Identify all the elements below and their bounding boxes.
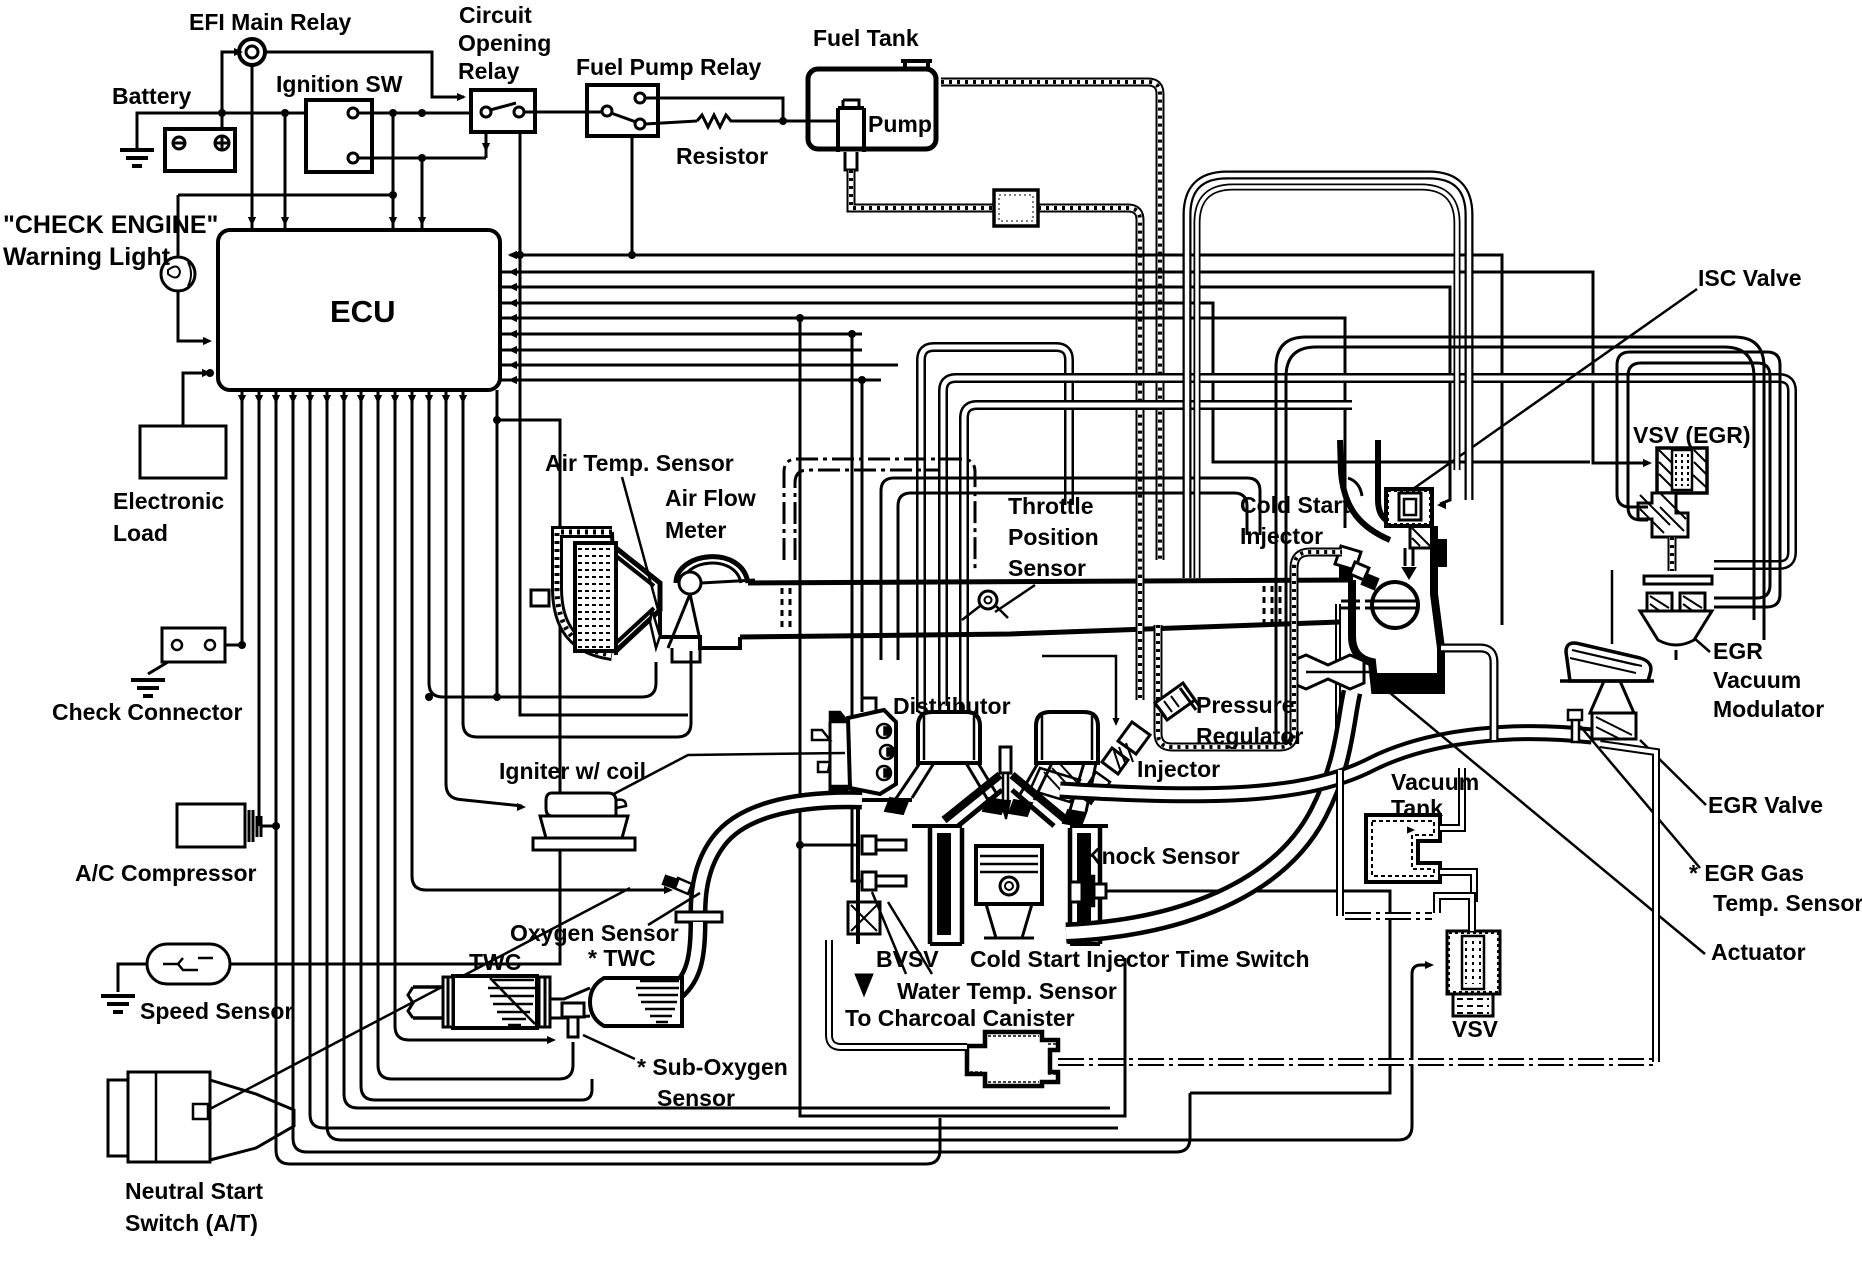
intake flange hatch	[1030, 768, 1080, 802]
circuit opening relay	[471, 90, 535, 132]
AFM body bottom	[660, 612, 740, 648]
svg-text:Sensor: Sensor	[1008, 555, 1086, 581]
wire speed sensor ground	[118, 964, 147, 992]
svg-text:Vacuum: Vacuum	[1713, 667, 1801, 693]
big intake pipe engine to surge tank (thick)	[1066, 692, 1352, 933]
wire electronic load to ECU	[183, 373, 206, 426]
svg-text:Vacuum: Vacuum	[1391, 769, 1479, 795]
svg-text:Battery: Battery	[112, 83, 191, 109]
fuel return loop (hatched)	[1140, 575, 1294, 747]
black arrow below BVSV	[855, 974, 873, 996]
TWC 1	[453, 976, 537, 1028]
ISC valve leader	[1413, 289, 1697, 489]
throttle valve	[1372, 582, 1418, 628]
svg-text:Injector: Injector	[1240, 523, 1323, 549]
svg-text:* TWC: * TWC	[588, 945, 656, 971]
injector (fuel)	[1118, 722, 1150, 754]
EGR vacuum modulator leader	[1694, 638, 1710, 652]
hose loop 6	[1286, 347, 1754, 745]
neutral start switch (A/T)	[128, 1072, 210, 1162]
hose vacuum tank right	[1440, 768, 1462, 828]
svg-text:A/C Compressor: A/C Compressor	[75, 860, 257, 886]
svg-text:* EGR Gas: * EGR Gas	[1689, 860, 1804, 886]
throttle position sensor	[979, 591, 997, 609]
wire ECU pin x=446	[446, 390, 522, 806]
vacuum hose plenum to surge tank (double)	[964, 405, 1352, 712]
svg-text:Fuel Pump Relay: Fuel Pump Relay	[576, 54, 762, 80]
exhaust inlet pipe	[413, 987, 443, 1018]
wire ECU bus y=303	[500, 303, 1590, 462]
svg-text:Air Temp. Sensor: Air Temp. Sensor	[545, 450, 734, 476]
cold start injector fuel hose (hatched)	[1294, 552, 1342, 720]
wire ECU pin x=463	[463, 390, 691, 737]
wire FPR junction to right side	[632, 255, 1502, 625]
AFM measuring chamber dome	[676, 557, 748, 583]
battery	[165, 129, 235, 171]
wire ECU bus y=272	[500, 272, 1645, 463]
svg-text:Pressure: Pressure	[1196, 692, 1294, 718]
ground (battery)	[120, 150, 154, 166]
wire EFI relay to ECU	[251, 65, 254, 228]
intake pipe to throttle body	[748, 580, 1352, 583]
hose up to EGR temp area	[1600, 744, 1656, 1062]
svg-text:EGR: EGR	[1713, 638, 1763, 664]
electronic load	[140, 426, 226, 478]
pressure regulator	[1155, 683, 1195, 720]
svg-text:Electronic: Electronic	[113, 488, 224, 514]
throttle body / surge tank walls	[1352, 526, 1441, 690]
svg-text:BVSV: BVSV	[876, 946, 939, 972]
svg-text:Speed Sensor: Speed Sensor	[140, 998, 293, 1024]
svg-text:Cold Start Injector Time Switc: Cold Start Injector Time Switch	[970, 946, 1310, 972]
svg-text:Load: Load	[113, 520, 168, 546]
fuel line from pump (hatched)	[851, 170, 994, 208]
wire ECU bus y=365	[500, 364, 898, 367]
svg-text:Throttle: Throttle	[1008, 493, 1094, 519]
EGR valve leader	[1640, 740, 1706, 805]
wire ECU bus y=334	[500, 333, 862, 336]
AFM vane	[668, 594, 700, 648]
wire to distributor	[861, 380, 864, 712]
ECU	[218, 230, 500, 390]
svg-text:Modulator: Modulator	[1713, 696, 1824, 722]
svg-text:Oxygen Sensor: Oxygen Sensor	[510, 920, 679, 946]
distributor	[848, 710, 896, 794]
EFI main relay	[239, 39, 265, 65]
wire A/C to harness	[261, 825, 278, 828]
wire loop L2	[898, 493, 1247, 660]
ISC passage	[1410, 526, 1432, 548]
exhaust downpipe	[698, 800, 862, 912]
BVSV valve	[848, 902, 880, 934]
wire ECU pin x=327	[327, 390, 1430, 1140]
hot air hose (dash-dot)	[784, 459, 975, 570]
igniter w/ coil	[546, 793, 616, 816]
svg-text:To Charcoal Canister: To Charcoal Canister	[845, 1005, 1075, 1031]
exhaust flange	[676, 912, 722, 922]
AFM vane pivot	[679, 572, 701, 594]
wire check connector to ECU harness	[225, 644, 242, 647]
wire ECU pin x=395	[395, 390, 553, 1040]
wire COR to air flow meter	[520, 132, 688, 715]
spark plug	[1000, 747, 1011, 773]
intake runners	[895, 763, 998, 800]
actuator	[1292, 655, 1364, 689]
svg-text:Resistor: Resistor	[676, 143, 768, 169]
svg-text:Opening: Opening	[458, 30, 551, 56]
intake horn channel	[1340, 440, 1390, 540]
svg-text:Water Temp. Sensor: Water Temp. Sensor	[897, 978, 1117, 1004]
wire to ECU	[421, 158, 424, 228]
surge tank to EGR delivery hose	[1441, 648, 1494, 740]
EGR gas temp sensor	[1568, 710, 1582, 742]
wire ECU pin x=242	[241, 390, 244, 645]
pump	[838, 108, 864, 152]
wire ECU pin x=344	[344, 390, 1110, 1108]
injector wire	[1042, 656, 1116, 722]
wire FPR to ECU	[510, 136, 632, 255]
hose VSV(EGR) elbow to modulator	[1668, 537, 1677, 571]
svg-text:Neutral Start: Neutral Start	[125, 1178, 263, 1204]
svg-text:Tank: Tank	[1391, 795, 1443, 821]
local hose loop around VSV(EGR) outer	[1617, 352, 1780, 607]
air filter element (hatched)	[575, 543, 616, 651]
wire neutral start switch (diagonal)	[208, 888, 630, 1110]
air temp sensor leader	[622, 477, 660, 617]
wire ECU pin x=276	[276, 390, 940, 1164]
vacuum hose plenum to EGR modulator (long double)	[943, 378, 1792, 706]
VSV(EGR) elbow	[1638, 493, 1688, 537]
canister loop wire	[800, 845, 1125, 1116]
air temp sensor	[650, 610, 660, 648]
actuator leader (long diagonal)	[1372, 678, 1705, 954]
VSV top pipe	[1437, 896, 1472, 931]
svg-text:ECU: ECU	[330, 294, 395, 329]
EGR valve	[1566, 643, 1651, 681]
svg-text:Regulator: Regulator	[1196, 723, 1303, 749]
wire ECU bus y=350	[500, 349, 862, 352]
svg-text:Warning Light: Warning Light	[3, 243, 171, 271]
knock sensor wire	[1106, 891, 1390, 1093]
svg-text:* Sub-Oxygen: * Sub-Oxygen	[637, 1054, 788, 1080]
ground (speed sensor)	[101, 996, 135, 1012]
wire ECU bus y=380	[500, 379, 881, 382]
piston	[976, 846, 1042, 904]
EGR pipe fuel-rail level (thick)	[1060, 733, 1592, 795]
fuel pump relay	[587, 85, 658, 136]
AFM funnel	[616, 548, 660, 651]
wire ECU pin x=259	[258, 390, 261, 826]
knock sensor	[1070, 882, 1082, 902]
water temp sensor bolts	[862, 836, 906, 854]
wire to ECU	[392, 113, 395, 228]
charcoal canister	[967, 1032, 1058, 1086]
wire to ECU	[284, 113, 287, 228]
wire ignition SW lower contact	[358, 157, 486, 160]
ISC valve	[1386, 489, 1432, 526]
hose loop 1	[1187, 175, 1469, 578]
ignition SW	[306, 100, 372, 172]
actuator stem	[1336, 604, 1340, 790]
check connector	[162, 628, 225, 662]
svg-text:ISC Valve: ISC Valve	[1698, 265, 1802, 291]
wire EFI relay to circuit opening relay	[265, 52, 464, 97]
wire ECU corner to AFM	[496, 390, 499, 697]
VSV (bottom)	[1447, 931, 1500, 994]
wire ECU pin x=361	[361, 390, 592, 1100]
wire ECU pin x=429	[429, 390, 656, 697]
wire to water temp sensor	[796, 314, 804, 322]
cold start injector	[1335, 546, 1361, 570]
EGR gas temp sensor leader	[1580, 726, 1700, 868]
wire battery+ to EFI relay	[222, 52, 238, 129]
wire COR to fuel pump relay	[524, 111, 602, 114]
oxygen sensor	[674, 878, 692, 894]
oxygen sensor leader	[648, 893, 700, 925]
A/C compressor	[177, 804, 245, 847]
cylinder head V	[944, 775, 1066, 820]
local hose loop around VSV(EGR) inner	[1628, 363, 1770, 598]
svg-text:VSV: VSV	[1452, 1016, 1499, 1042]
hose loop 2	[1197, 187, 1457, 578]
wire lamp to ECU	[178, 291, 208, 341]
svg-text:Pump: Pump	[868, 111, 932, 137]
svg-text:Relay: Relay	[458, 58, 520, 84]
fuel filter	[994, 190, 1038, 226]
svg-text:Injector: Injector	[1137, 756, 1220, 782]
vacuum hose plenum to center (double)	[921, 347, 1069, 712]
svg-text:EFI Main Relay: EFI Main Relay	[189, 9, 352, 35]
wire to BVSV	[852, 334, 862, 881]
AFM sensor stubs	[690, 651, 693, 715]
BVSV / water temp leaders	[872, 892, 906, 974]
vacuum tank	[1366, 815, 1440, 882]
wire COR lower stub	[485, 132, 488, 158]
ground (check connector)	[131, 680, 165, 696]
svg-text:Igniter w/ coil: Igniter w/ coil	[499, 758, 646, 784]
svg-text:"CHECK ENGINE": "CHECK ENGINE"	[3, 211, 218, 239]
wire loop to cold start hose region L1	[881, 478, 1260, 660]
svg-text:EGR Valve: EGR Valve	[1708, 792, 1823, 818]
TPS leader	[995, 585, 1035, 612]
pipe between TWCs	[550, 988, 590, 1018]
svg-text:Meter: Meter	[665, 517, 726, 543]
VSV (EGR)	[1657, 448, 1707, 493]
sub-oxygen sensor	[562, 1003, 584, 1017]
resistor	[697, 115, 734, 127]
EGR valve stem	[1611, 570, 1614, 644]
wire FPR top contact to fuel tank	[645, 98, 783, 120]
dashdot hose to VSV	[1345, 912, 1432, 920]
canister feed hose from BVSV	[829, 940, 967, 1047]
sub-oxygen leader	[583, 1035, 635, 1059]
wire FPR via resistor to pump	[645, 121, 697, 124]
wire ECU pin x=412	[412, 390, 668, 890]
fuel tank	[808, 69, 936, 149]
downpipe to TWC2	[672, 922, 698, 996]
wire ignition SW upper contact	[358, 112, 471, 115]
svg-text:Sensor: Sensor	[657, 1085, 735, 1111]
svg-text:Circuit: Circuit	[459, 2, 532, 28]
svg-text:Air Flow: Air Flow	[665, 485, 756, 511]
check engine warning light	[178, 194, 393, 197]
throttle shaft dashed	[1341, 601, 1372, 608]
wire ECU bus y=287	[500, 287, 1450, 504]
wire speed sensor to ECU	[230, 420, 560, 964]
svg-text:Switch (A/T): Switch (A/T)	[125, 1210, 258, 1236]
wire ECU pin x=378	[378, 390, 573, 1079]
intake plenum chambers	[918, 712, 980, 763]
wire igniter to distributor	[608, 753, 845, 797]
fuel return line (hatched)	[941, 82, 1160, 560]
wire ECU pin x=293	[293, 390, 1190, 1152]
engine cylinder block	[930, 828, 1100, 944]
svg-text:Ignition SW: Ignition SW	[276, 71, 403, 97]
svg-text:VSV (EGR): VSV (EGR)	[1633, 422, 1751, 448]
wire battery ground bus	[137, 113, 306, 150]
EGR vacuum modulator	[1644, 576, 1712, 584]
svg-text:Distributor: Distributor	[893, 693, 1011, 719]
wire ECU pin x=310	[310, 390, 1118, 1128]
engine head left wall	[856, 800, 860, 944]
svg-text:Actuator: Actuator	[1711, 939, 1806, 965]
svg-text:Cold Start: Cold Start	[1240, 492, 1350, 518]
pipe joint dashes	[782, 588, 790, 632]
svg-text:Fuel Tank: Fuel Tank	[813, 25, 919, 51]
svg-text:Check Connector: Check Connector	[52, 699, 242, 725]
svg-text:Knock Sensor: Knock Sensor	[1085, 843, 1240, 869]
runner ports (black)	[885, 798, 908, 814]
speed sensor	[147, 944, 230, 984]
junction node	[281, 109, 289, 117]
hose loop 5 (to right side)	[1276, 337, 1764, 745]
svg-text:Temp. Sensor: Temp. Sensor	[1713, 890, 1862, 916]
hose vacuum tank left vertical	[1336, 770, 1344, 916]
svg-text:TWC: TWC	[469, 949, 521, 975]
wire ECU bus y=318	[500, 318, 1345, 528]
TWC 2	[590, 978, 682, 1026]
canister pipe right (dash-dot)	[1058, 1058, 1656, 1066]
air intake snorkel (hatched duct)	[557, 532, 612, 592]
svg-text:Position: Position	[1008, 524, 1099, 550]
